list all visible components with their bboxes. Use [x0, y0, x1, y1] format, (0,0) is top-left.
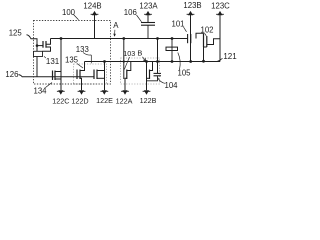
node dot 172 line B	[171, 60, 174, 63]
svg-text:B: B	[137, 49, 142, 58]
terminal 122B arrow	[144, 90, 149, 94]
svg-text:101: 101	[171, 19, 184, 28]
node dot T135R drain	[103, 60, 106, 63]
leader 133	[83, 53, 91, 64]
leader 100	[74, 15, 79, 20]
svg-text:100: 100	[62, 8, 76, 17]
transistor 102	[204, 33, 221, 61]
terminal 124B arrow	[91, 11, 99, 39]
svg-text:122A: 122A	[116, 96, 133, 105]
wire node-B source line	[85, 61, 221, 63]
svg-text:121: 121	[223, 52, 237, 61]
capacitor 106	[141, 23, 155, 39]
resistor 131	[34, 46, 43, 77]
node dot 172 rail A	[171, 37, 174, 40]
wire T102 gate feed	[196, 33, 204, 38]
terminal 122D arrow	[79, 90, 84, 94]
transistor 133 (upper left FET)	[43, 39, 51, 52]
leader 105	[178, 53, 180, 70]
svg-text:131: 131	[46, 57, 60, 66]
terminal 123C arrow	[216, 11, 224, 62]
svg-text:102: 102	[200, 25, 213, 34]
node dot line-B crossing	[123, 60, 125, 62]
leader 135	[77, 64, 83, 69]
capacitor 104	[147, 73, 162, 80]
wire node-A rail	[51, 38, 188, 40]
leader 131	[44, 56, 46, 58]
node B dot T103R gate	[145, 60, 148, 63]
node dot T101 source	[189, 60, 192, 63]
leader 101	[184, 27, 187, 32]
node B label arrow	[143, 57, 146, 61]
terminal 122A arrow	[122, 90, 127, 94]
leader 134	[46, 83, 53, 88]
terminal 122C arrow	[58, 90, 63, 94]
svg-text:124B: 124B	[83, 1, 101, 10]
wire T103L gate riser	[123, 39, 125, 80]
node dot T102 source	[202, 60, 205, 63]
svg-text:133: 133	[76, 45, 89, 54]
svg-text:125: 125	[9, 29, 23, 38]
dashed box 103 (transistor pair group)	[121, 58, 160, 84]
svg-text:123B: 123B	[183, 1, 201, 10]
terminal 123B arrow	[187, 11, 195, 62]
svg-text:122B: 122B	[140, 96, 157, 105]
svg-text:135: 135	[65, 56, 79, 65]
svg-text:126: 126	[5, 70, 18, 79]
transistor 135 right	[94, 62, 105, 91]
svg-text:A: A	[113, 21, 119, 30]
transistor 103 right	[147, 62, 153, 91]
node dot 157 rail A	[156, 37, 159, 40]
svg-text:104: 104	[164, 81, 178, 90]
svg-text:123C: 123C	[211, 1, 230, 10]
transistor 101	[188, 34, 191, 43]
leader 102	[205, 33, 207, 36]
node A rail dot	[122, 37, 125, 40]
transistor 134	[53, 71, 62, 81]
leader 121	[217, 58, 223, 61]
transistor 103 left	[125, 62, 131, 91]
wire rail A to cap 104	[157, 39, 159, 74]
svg-text:103: 103	[123, 49, 135, 58]
capacitor 105	[166, 39, 178, 62]
transistor 135 left	[77, 62, 85, 91]
leader 104	[158, 77, 166, 83]
dashed box 135 (transistor pair group)	[74, 64, 107, 84]
wire input 125	[27, 35, 38, 46]
leader 103	[124, 57, 129, 70]
dashed box 100 (bias circuit)	[34, 21, 111, 85]
svg-text:122E: 122E	[96, 96, 113, 105]
node dot 125 gate feed	[36, 44, 39, 47]
svg-text:105: 105	[177, 69, 191, 78]
terminal 123A arrow	[144, 11, 152, 22]
node A label arrow	[114, 30, 116, 36]
svg-text:122C: 122C	[52, 96, 69, 105]
wire input 126	[19, 75, 95, 77]
node A dot T131 drain	[60, 37, 63, 40]
svg-text:134: 134	[33, 87, 47, 96]
node dot 157 line B	[156, 60, 159, 63]
svg-text:122D: 122D	[71, 96, 88, 105]
wire T134 drain-source column	[60, 39, 62, 91]
leader 106	[137, 15, 142, 22]
wire gate feed T131	[37, 45, 43, 47]
svg-text:106: 106	[124, 8, 137, 17]
svg-text:123A: 123A	[139, 1, 158, 10]
terminal 122E arrow	[102, 90, 107, 94]
